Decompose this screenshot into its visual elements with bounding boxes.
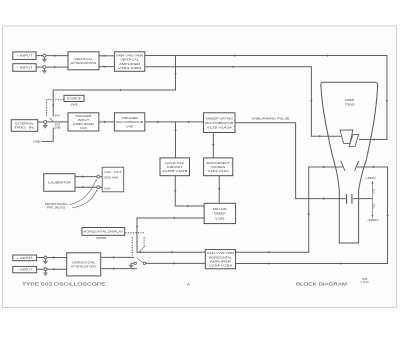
- CRT horizontal deflection plate right: [355, 161, 359, 171]
- horizontal display switch SW300: [82, 228, 125, 236]
- vertical amplifier U V: [114, 52, 144, 72]
- miller sweep generator: [204, 203, 236, 223]
- wire sweep to horizontal amplifier upper input: [137, 251, 205, 253]
- wire trigger multivibrator to sweep gating multivibrator: [145, 121, 204, 123]
- wire horizontal attenuators upper output to switch: [101, 256, 135, 258]
- stub jack to cal out box lower: [100, 186, 102, 188]
- svg-text:BLOCK DIAGRAM: BLOCK DIAGRAM: [296, 282, 348, 287]
- wire attenuators to vertical amplifier lower: [99, 66, 114, 68]
- wire LINE feed to source switch LINE contact: [41, 128, 53, 142]
- ground at vertical - input: [42, 69, 46, 73]
- svg-text:V24: V24: [80, 126, 88, 130]
- CRT vertical deflection plate right: [349, 134, 358, 146]
- trigger source switch SW5: [64, 95, 84, 101]
- svg-text:DIODES: DIODES: [211, 165, 225, 169]
- stub ground to switch contact: [131, 262, 134, 264]
- svg-text:DISCONNECT: DISCONNECT: [207, 161, 231, 165]
- svg-text:+ INPUT: + INPUT: [17, 256, 34, 260]
- svg-text:5 MV: 5 MV: [104, 187, 110, 191]
- horizontal amplifier: [205, 250, 235, 269]
- svg-text:500 MV: 500 MV: [104, 176, 118, 180]
- svg-text:V294 V293 V284: V294 V293 V284: [207, 251, 235, 255]
- svg-text:AMPLIFIER: AMPLIFIER: [210, 259, 231, 263]
- source switch wiper: [50, 118, 54, 122]
- svg-text:SWEEP GATING: SWEEP GATING: [205, 116, 233, 120]
- CRT grid bar right: [351, 194, 353, 204]
- external trigger input: [11, 120, 38, 132]
- dashed link display switch a: [125, 232, 144, 234]
- wire sweep gating multivibrator to disconnect diodes: [212, 133, 214, 158]
- wire h- box to jack: [37, 268, 44, 270]
- horizontal display switch wiper diagonal lower: [137, 258, 144, 264]
- svg-text:HORIZONTAL: HORIZONTAL: [209, 255, 233, 259]
- wire switch to horizontal amplifier lower input: [146, 262, 206, 264]
- sweep gating multivibrator: [204, 113, 236, 133]
- disconnect diodes: [204, 158, 233, 176]
- dashed mechanical link source switch: [47, 99, 64, 117]
- wire calibrator to cal out jack 500mv: [75, 176, 97, 178]
- wire CRT cathode to accelerating potential: [353, 198, 373, 200]
- wire attenuators to vertical amplifier upper: [99, 55, 114, 57]
- svg-text:INPUT: INPUT: [78, 118, 90, 122]
- svg-text:VERTICAL: VERTICAL: [120, 58, 139, 62]
- svg-text:TRIGGER: TRIGGER: [75, 114, 91, 118]
- svg-text:T503: T503: [345, 103, 355, 107]
- wire hold-off circuit feedback to trigger line: [175, 122, 177, 158]
- dashed link display switch c: [143, 237, 145, 246]
- cal out box: [102, 167, 124, 192]
- svg-text:LINE: LINE: [33, 140, 41, 144]
- leader arrow to lower pin jack: [72, 190, 97, 208]
- CRT horizontal deflection plate left: [341, 161, 345, 171]
- horizontal attenuators: [67, 253, 101, 276]
- ground at horizontal display switch: [129, 263, 133, 267]
- switch contact right: [143, 262, 145, 264]
- svg-text:− INPUT: − INPUT: [16, 65, 33, 69]
- svg-text:SW300: SW300: [96, 236, 107, 240]
- svg-text:MULTIVIBRATOR: MULTIVIBRATOR: [205, 121, 233, 125]
- wire disconnect diodes to miller sweep: [218, 176, 220, 204]
- trigger multivibrator: [114, 113, 144, 131]
- wire horizontal attenuators lower output to switch: [101, 268, 137, 270]
- wire unblanking pulse to CRT grid: [235, 123, 346, 199]
- vertical - input jack: [43, 66, 46, 69]
- svg-text:ATTENUATORS: ATTENUATORS: [71, 61, 97, 65]
- svg-text:−1300V: −1300V: [366, 218, 379, 222]
- ground at horizontal + input: [43, 259, 47, 263]
- svg-text:SWEEP: SWEEP: [214, 212, 226, 216]
- svg-text:FRONT PANEL: FRONT PANEL: [45, 202, 68, 206]
- svg-text:V254 V264: V254 V264: [209, 264, 233, 268]
- svg-text:+350V: +350V: [365, 176, 376, 180]
- wire h- jack to horizontal attenuators: [47, 268, 66, 270]
- vertical + input connector label: [13, 52, 36, 60]
- stub jack to cal out box upper: [100, 176, 102, 178]
- svg-text:AMPLIFIER: AMPLIFIER: [119, 62, 140, 66]
- leader arrow to upper pin jack: [70, 180, 96, 205]
- svg-text:V135 V143A: V135 V143A: [207, 125, 233, 129]
- svg-text:CAL. OUT: CAL. OUT: [104, 170, 122, 174]
- svg-text:LINE: LINE: [54, 127, 61, 130]
- horizontal - input connector label: [13, 266, 37, 272]
- cal out pin jack upper: [97, 175, 100, 178]
- wire h+ jack to horizontal attenuators: [47, 257, 66, 259]
- CRT grid bar left: [346, 194, 348, 204]
- wire + input jack to vertical attenuators: [46, 55, 68, 57]
- wire trigger input amplifier to trigger multivibrator: [99, 121, 115, 123]
- wire horizontal amplifier lower output to CRT right horizontal plate: [236, 167, 388, 264]
- hold-off circuit: [160, 158, 190, 176]
- svg-text:PIN JACKS: PIN JACKS: [47, 205, 65, 209]
- wire - input jack to vertical attenuators: [46, 66, 68, 68]
- svg-text:UNBLANKING PULSE: UNBLANKING PULSE: [252, 117, 290, 121]
- ground at horizontal - input: [43, 271, 47, 275]
- ground at vertical + input: [42, 57, 46, 61]
- calibrator: [44, 174, 75, 192]
- CRT V859 T503 envelope: [321, 82, 378, 243]
- svg-text:TRIG. IN.: TRIG. IN.: [14, 125, 35, 129]
- vertical + input jack: [43, 54, 46, 57]
- horizontal + input connector label: [13, 255, 37, 261]
- wire hold-off circuit to miller sweep: [175, 176, 204, 206]
- svg-text:+ INPUT: + INPUT: [16, 54, 33, 58]
- svg-text:ATTENUATORS: ATTENUATORS: [71, 264, 97, 268]
- svg-text:CALIBRATOR: CALIBRATOR: [48, 181, 72, 185]
- horizontal - input jack: [44, 268, 47, 271]
- trigger input amplifier: [68, 113, 99, 131]
- svg-text:A: A: [187, 282, 190, 287]
- svg-text:2-13-56: 2-13-56: [360, 281, 369, 284]
- accelerating potential span indicator: [371, 181, 373, 218]
- svg-text:V183: V183: [215, 216, 225, 220]
- wire vertical amplifier lower output to CRT left deflection plate: [145, 67, 342, 136]
- svg-text:INT: INT: [55, 114, 61, 117]
- wire calibrator to cal out jack 5mv: [75, 186, 97, 188]
- wire - input box to jack: [36, 66, 43, 68]
- svg-text:V454 V464: V454 V464: [118, 66, 142, 70]
- external trigger jack: [44, 121, 47, 124]
- arrow on trigger pickoff down: [52, 105, 54, 108]
- wire internal trigger pickoff to source switch INT contact: [53, 56, 175, 117]
- svg-text:V859: V859: [345, 98, 355, 102]
- wire h+ box to jack: [37, 257, 44, 259]
- svg-text:SOURCE: SOURCE: [67, 96, 81, 100]
- svg-text:V145B V161B: V145B V161B: [162, 169, 188, 173]
- svg-text:TYPE 503 OSCILLOSCOPE: TYPE 503 OSCILLOSCOPE: [22, 281, 106, 286]
- switch contact left: [134, 262, 136, 264]
- svg-text:V152 V162: V152 V162: [208, 169, 230, 173]
- wire ext trig box to jack: [38, 121, 44, 123]
- horizontal + input jack: [44, 256, 47, 259]
- svg-text:MILLER: MILLER: [213, 207, 227, 211]
- svg-text:V484 V493 V494: V484 V493 V494: [116, 53, 144, 57]
- svg-text:HORIZONTAL DISPLAY: HORIZONTAL DISPLAY: [84, 229, 124, 233]
- CRT vertical deflection plate left: [340, 130, 353, 144]
- wire vertical amplifier upper output to CRT right deflection plate: [145, 56, 387, 140]
- dashed link display switch b: [131, 237, 133, 256]
- wire + input box to jack: [36, 55, 43, 57]
- svg-text:− INPUT: − INPUT: [17, 268, 34, 272]
- vertical - input connector label: [13, 64, 36, 72]
- svg-text:CIRCUIT: CIRCUIT: [167, 165, 184, 169]
- wire horizontal amplifier upper output to CRT left horizontal plate: [236, 167, 343, 252]
- vertical attenuators: [68, 52, 99, 70]
- svg-text:SW5: SW5: [71, 103, 79, 107]
- svg-text:AMPLIFIER: AMPLIFIER: [73, 122, 94, 126]
- horizontal display switch wiper diagonal upper: [139, 246, 145, 252]
- cal out pin jack lower: [97, 186, 100, 189]
- wire EXT contact to trigger input amplifier: [47, 121, 68, 123]
- ground at external trigger jack: [43, 124, 47, 128]
- wire miller sweep output to horizontal display switch: [137, 218, 204, 252]
- svg-text:V45: V45: [126, 124, 134, 128]
- svg-text:HOLD-OFF: HOLD-OFF: [165, 161, 184, 165]
